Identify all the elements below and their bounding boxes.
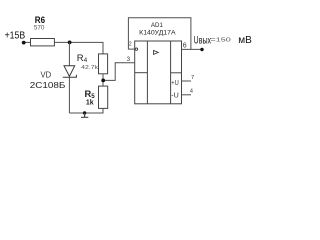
wire: feedback loop from pin 2 over top to output	[128, 18, 191, 50]
wire: rail from R6 to R4 corner	[54, 42, 103, 54]
ground symbol	[81, 113, 88, 117]
svg-text:=150: =150	[210, 37, 230, 43]
resistor R6	[31, 39, 55, 46]
wire: below zener to bottom rail	[68, 77, 70, 113]
node: output terminal dot	[200, 48, 203, 51]
svg-text:К140УД17А: К140УД17А	[139, 30, 176, 37]
wire: pin 4 stub	[182, 94, 192, 96]
zener diode VD triangle	[64, 66, 75, 77]
wire: +15V rail from terminal to R6	[24, 41, 31, 43]
resistor R4	[99, 54, 108, 74]
inversion circle at pin 2	[135, 48, 137, 50]
svg-text:мВ: мВ	[238, 35, 252, 46]
svg-text:570: 570	[34, 25, 45, 32]
svg-text:2С108Б: 2С108Б	[30, 81, 66, 90]
resistor R5	[99, 86, 108, 108]
wire: pin 6 output stub	[182, 48, 203, 50]
zener cathode bar with tick	[63, 75, 77, 78]
node: divider tap dot	[101, 79, 105, 83]
op-amp left field horizontal divider	[135, 72, 148, 74]
wire: bottom rail	[69, 112, 103, 114]
wire: pin 7 stub	[182, 80, 192, 82]
op-amp U1 box outline	[135, 41, 182, 104]
node A: junction dot on rail	[68, 41, 72, 45]
svg-text:+U: +U	[171, 80, 179, 87]
svg-text:6: 6	[183, 43, 187, 50]
op-amp left field divider	[146, 41, 148, 104]
svg-text:1k: 1k	[86, 100, 94, 107]
ground node dot	[83, 111, 86, 114]
wire: R4 to R5 and tap to pin 3	[103, 63, 135, 86]
op-amp amplifier triangle symbol	[154, 50, 159, 54]
svg-text:2: 2	[129, 42, 132, 48]
svg-text:42.7k: 42.7k	[81, 65, 98, 71]
op-amp right field divider	[170, 41, 172, 104]
svg-text:7: 7	[191, 75, 194, 81]
op-amp right field horizontal divider	[171, 72, 182, 74]
node: +15V terminal dot	[22, 41, 26, 45]
svg-text:R6: R6	[35, 15, 45, 25]
wire: zener branch down	[68, 42, 70, 66]
svg-text:+15В: +15В	[5, 30, 26, 41]
svg-text:AD1: AD1	[151, 22, 164, 29]
svg-text:-U: -U	[171, 93, 179, 100]
wire: R5 bottom lead	[102, 108, 104, 113]
svg-text:VD: VD	[41, 70, 52, 80]
